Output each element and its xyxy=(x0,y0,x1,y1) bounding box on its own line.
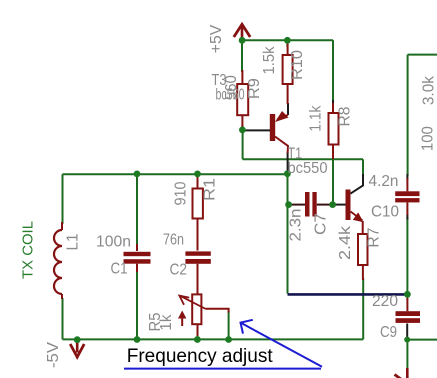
capacitor C7 right pin xyxy=(317,204,333,206)
wire C9 bottom node right xyxy=(407,339,437,341)
potentiometer R5 wiper arrow diagonal xyxy=(182,297,206,309)
wire bottom -5V rail xyxy=(63,338,364,340)
wire line A corner down to T1 collector xyxy=(362,159,364,175)
svg-text:3.0k: 3.0k xyxy=(420,75,437,105)
transistor T3 emitter arrow xyxy=(275,111,289,122)
svg-text:2.4k: 2.4k xyxy=(337,225,354,260)
capacitor C7 plates xyxy=(305,192,310,217)
capacitor C1 plates xyxy=(124,252,151,256)
bus wire (dark blue) xyxy=(288,293,408,296)
svg-text:1.1k: 1.1k xyxy=(308,105,325,132)
svg-text:1k: 1k xyxy=(158,314,175,331)
wire tank left side upper xyxy=(62,174,64,224)
pin C9 bottom lead xyxy=(406,324,408,339)
transistor T3 emitter diagonal xyxy=(277,115,288,120)
power -5V arrow bottom right (clipped) xyxy=(406,368,409,378)
annotation arrow shaft xyxy=(241,323,322,367)
inductor L1 bottom stub xyxy=(61,294,63,299)
svg-text:C9: C9 xyxy=(380,324,397,341)
capacitor C9 plates xyxy=(396,311,421,316)
node R5 bottom xyxy=(194,336,201,343)
pin C10 tips xyxy=(406,174,408,220)
svg-text:220: 220 xyxy=(372,293,398,310)
pin R9 bottom tip xyxy=(241,125,243,129)
potentiometer R5 body xyxy=(192,294,201,324)
node R5 wiper bottom xyxy=(225,336,232,343)
wire C1 bottom lead xyxy=(136,270,138,339)
wire R5 bottom connection xyxy=(197,334,199,339)
capacitor C2 to R5 lead xyxy=(197,264,199,295)
svg-text:2.3n: 2.3n xyxy=(288,209,305,242)
node C7 left xyxy=(285,201,292,208)
wire T3 collector node down to bus corner xyxy=(287,174,289,294)
annotation underline xyxy=(124,368,321,370)
potentiometer R5 wiper wire xyxy=(206,309,229,313)
R5 adjust small arrow shaft xyxy=(181,317,183,326)
svg-text:+5V: +5V xyxy=(208,24,225,53)
resistor R1 body xyxy=(193,189,203,219)
wire rail corner down to R8 xyxy=(332,40,334,104)
svg-text:C10: C10 xyxy=(371,203,399,220)
wire right top corner horizontal xyxy=(408,54,437,56)
svg-text:4.2n: 4.2n xyxy=(369,173,399,190)
wire base node down xyxy=(242,130,244,159)
potentiometer R5 wiper arrowhead xyxy=(179,296,189,305)
wire R8 bottom down to T1 base node xyxy=(332,159,334,204)
svg-text:C1: C1 xyxy=(111,261,128,278)
wire right vertical to C10 xyxy=(407,55,409,176)
node tank / T3 collector xyxy=(284,170,291,177)
transistor T1 base bar xyxy=(346,190,351,221)
pin T3 emitter top xyxy=(287,103,289,115)
resistor R9 body xyxy=(237,84,248,115)
wire +5V dot to R9 xyxy=(241,40,243,72)
svg-text:76n: 76n xyxy=(163,231,184,248)
capacitor C2 plates xyxy=(185,251,210,255)
resistor R7 bottom lead xyxy=(362,265,364,280)
inductor L1 top stub xyxy=(61,222,63,230)
svg-text:L1: L1 xyxy=(65,233,82,250)
transistor T1 emitter diagonal xyxy=(351,212,363,221)
pin T3 collector bottom xyxy=(287,152,289,172)
capacitor C7 left pin xyxy=(289,204,305,206)
node R1 top xyxy=(194,171,201,178)
resistor R10 body xyxy=(283,55,293,84)
node bus / C9 top xyxy=(404,291,411,298)
svg-text:1.5k: 1.5k xyxy=(261,46,278,75)
svg-text:Frequency adjust: Frequency adjust xyxy=(127,345,274,367)
node C9 bottom xyxy=(404,337,410,343)
svg-text:R7: R7 xyxy=(366,228,383,248)
resistor R8 body xyxy=(329,113,339,145)
svg-text:TX COIL: TX COIL xyxy=(20,221,37,279)
node T3 base xyxy=(239,126,246,133)
resistor R9 leads xyxy=(241,70,243,127)
node C1 top xyxy=(134,171,141,178)
svg-text:R10: R10 xyxy=(289,50,306,80)
wire bottom rail corner up to R7 xyxy=(362,278,364,339)
svg-text:100: 100 xyxy=(419,126,436,151)
power +5V arrow xyxy=(241,26,244,40)
transistor T1 emitter arrow xyxy=(353,212,364,222)
wire feedback line A xyxy=(243,158,363,160)
wire R5 wiper down xyxy=(228,312,230,340)
annotation arrowhead xyxy=(241,320,253,334)
svg-text:R1: R1 xyxy=(202,178,219,201)
svg-text:-5V: -5V xyxy=(45,342,62,368)
capacitor C1 lead bottom xyxy=(136,264,138,272)
resistor R8 leads xyxy=(332,103,334,159)
capacitor C9 lead top xyxy=(406,294,408,311)
potentiometer R5 bottom lead xyxy=(197,324,199,336)
wire C1 top lead xyxy=(136,174,138,246)
svg-text:560: 560 xyxy=(223,75,240,100)
capacitor C10 lead bottom xyxy=(406,202,408,215)
resistor R10 leads xyxy=(287,43,289,104)
pin T1 collector xyxy=(351,174,364,194)
svg-text:bc550: bc550 xyxy=(288,160,328,177)
node C1 bottom xyxy=(134,336,141,343)
pin T1 base xyxy=(333,204,346,206)
transistor T1 emitter lead xyxy=(362,221,364,234)
wire C10 bottom to bus node xyxy=(406,217,408,294)
capacitor C1 lead top xyxy=(136,244,138,251)
resistor R7 body xyxy=(358,234,368,265)
svg-text:R9: R9 xyxy=(246,78,263,99)
pin T3 base xyxy=(243,129,270,131)
resistor R1 to C2 lead xyxy=(197,219,199,251)
wire C9 bottom node down xyxy=(406,340,408,369)
resistor R1 lead top xyxy=(197,176,199,189)
pin R8 top tip xyxy=(332,100,334,108)
wire tank top rail xyxy=(63,173,288,175)
wire dot to R10 xyxy=(286,40,288,47)
node +5V / R9 xyxy=(239,37,246,44)
node -5V xyxy=(74,336,81,343)
transistor T3 collector diagonal xyxy=(275,137,288,154)
svg-text:C7: C7 xyxy=(313,213,330,235)
inductor L1 arcs xyxy=(54,230,62,294)
svg-text:910: 910 xyxy=(172,181,189,205)
capacitor C10 plates xyxy=(395,191,419,196)
wire tank left side lower xyxy=(62,298,64,339)
node C7 right / T1 base xyxy=(329,201,336,208)
R5 adjust small arrow head xyxy=(178,311,186,319)
wire +5V top rail xyxy=(242,39,333,41)
svg-text:R8: R8 xyxy=(336,106,353,126)
node rail / R10 xyxy=(284,37,291,44)
svg-text:C2: C2 xyxy=(170,262,188,279)
wire R1 top connection xyxy=(197,174,199,179)
transistor T3 base bar xyxy=(270,114,275,141)
power -5V arrow left xyxy=(76,340,79,353)
svg-text:100n: 100n xyxy=(96,234,131,251)
capacitor C10 lead top xyxy=(406,178,408,191)
